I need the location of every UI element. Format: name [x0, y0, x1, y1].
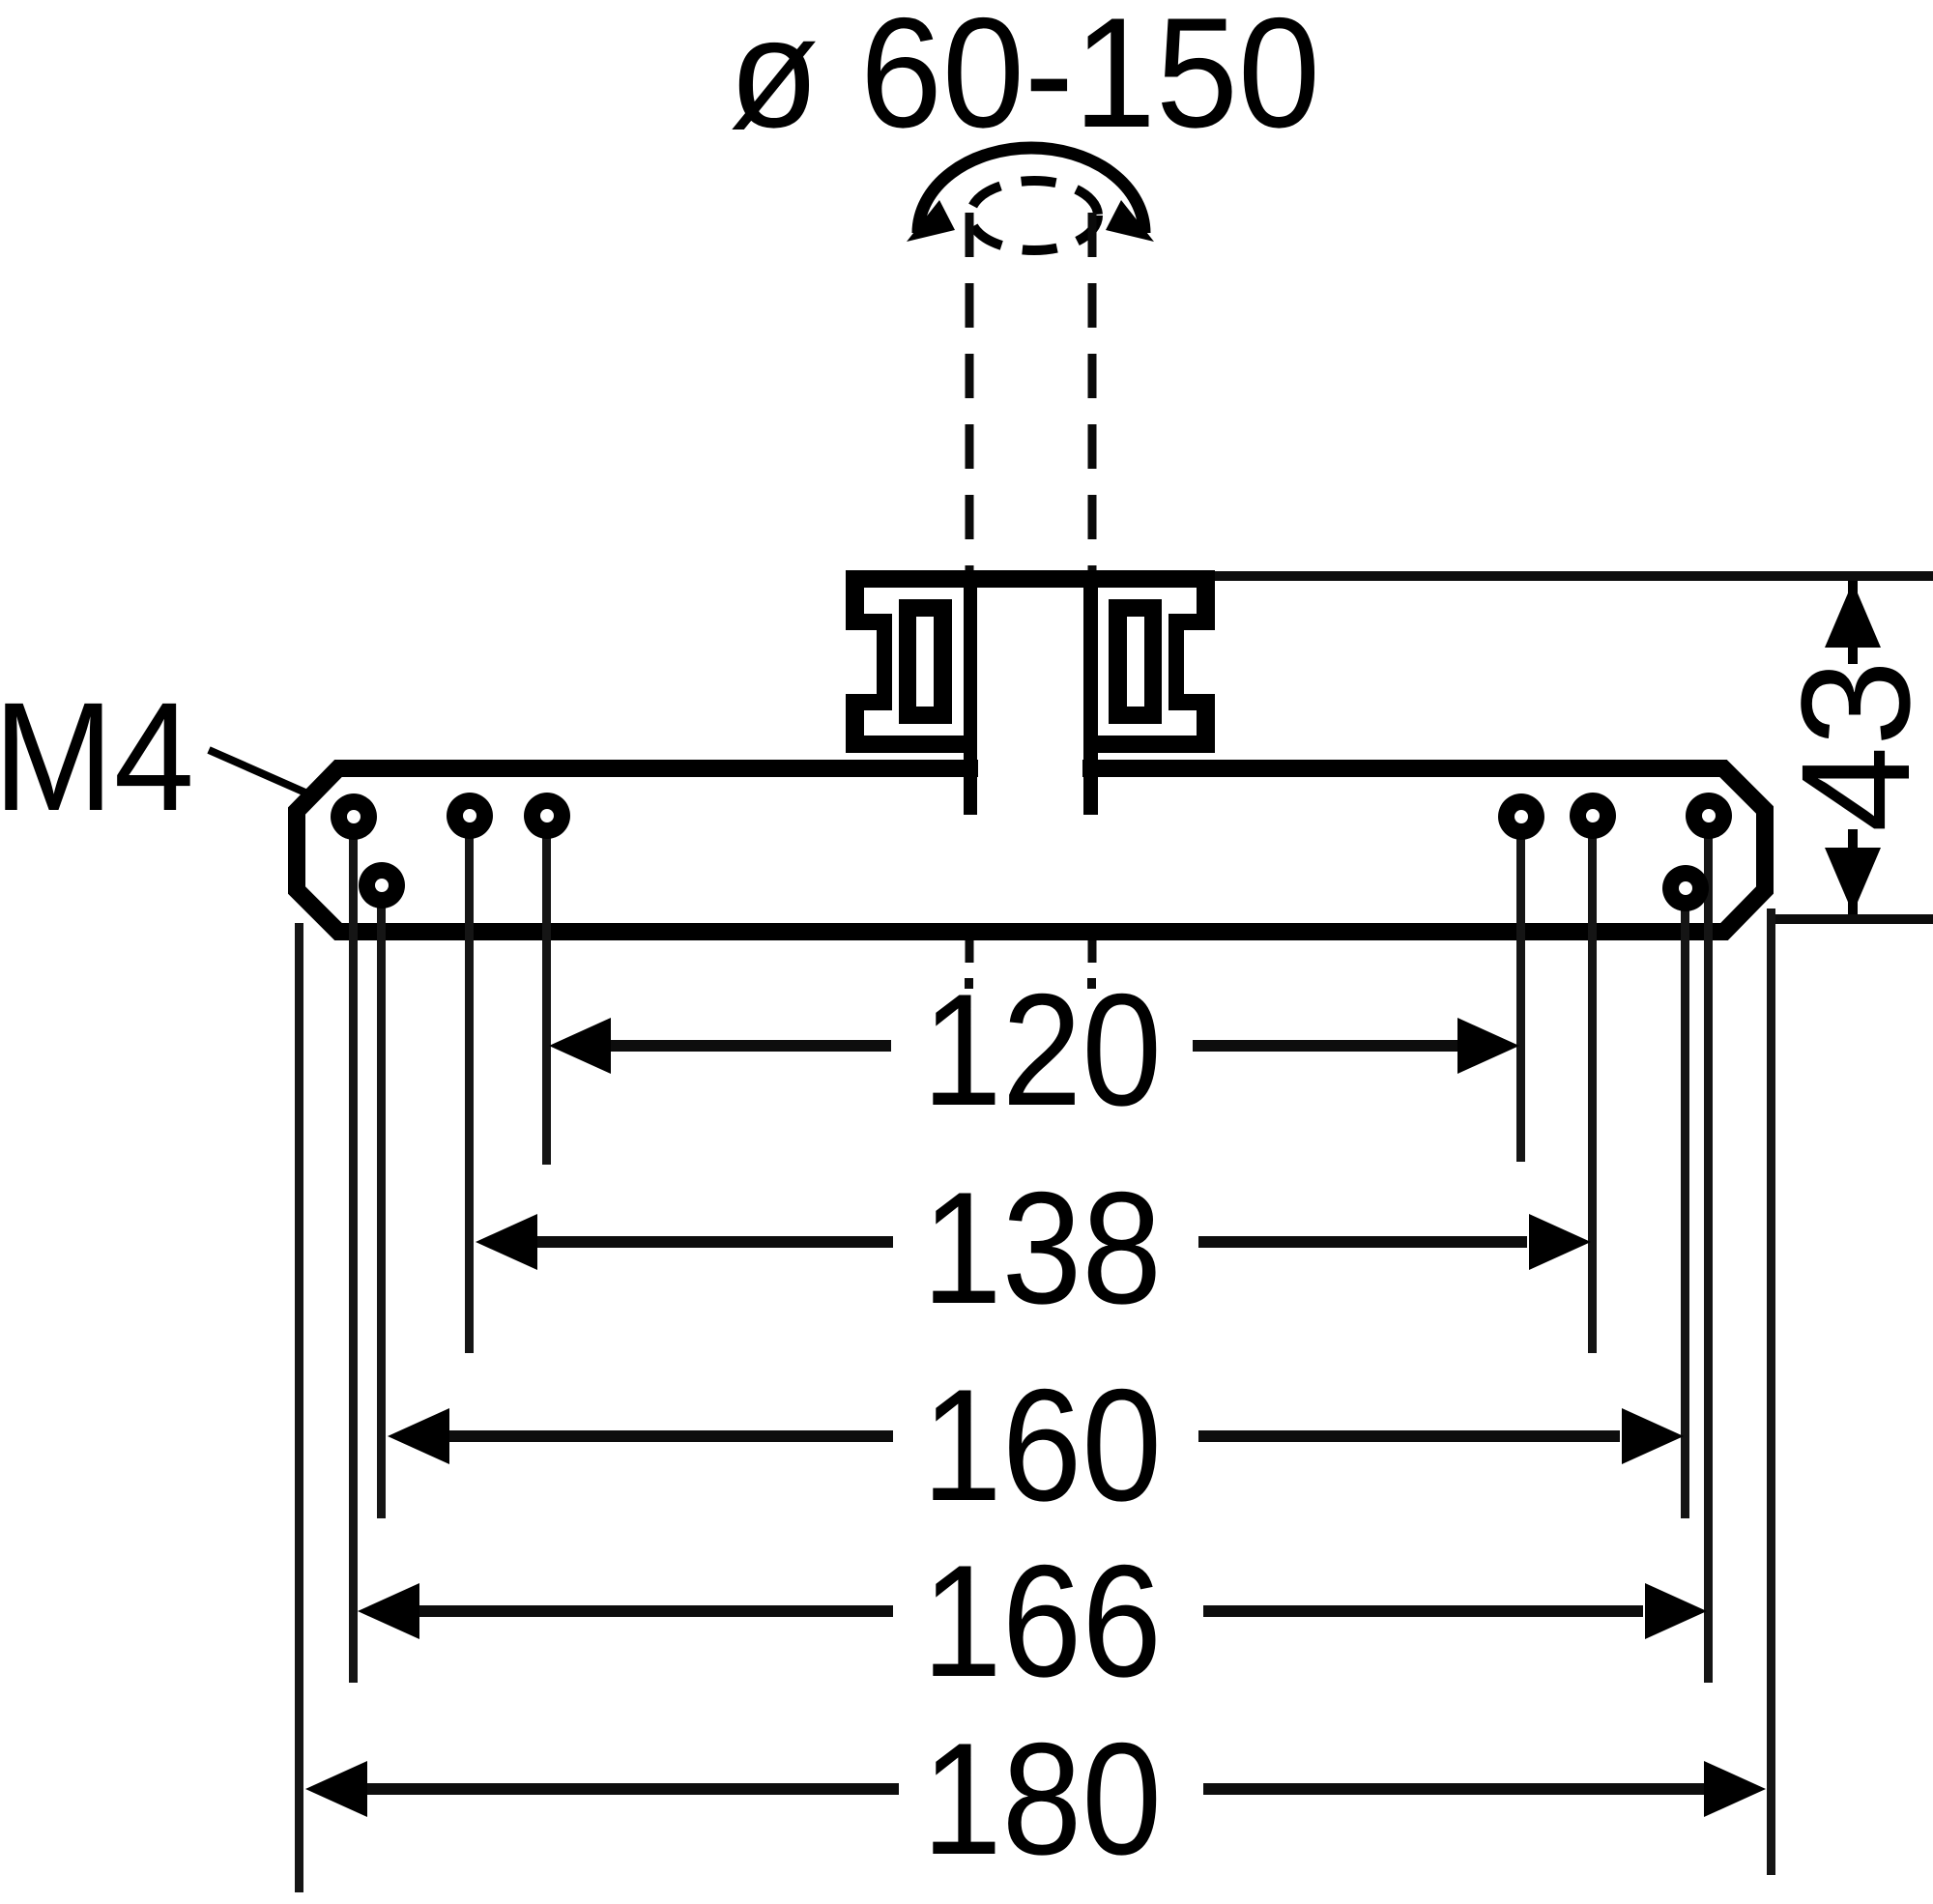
notch structure right [1168, 614, 1197, 630]
dimension line 166 right segment [1203, 1605, 1643, 1617]
hole L3 [524, 793, 570, 839]
hole R2 [1570, 793, 1616, 839]
notch cut left [840, 630, 877, 694]
dimension 160 left arrow [388, 1408, 449, 1464]
hole R3 [1686, 793, 1732, 839]
svg-text:ø 60-150: ø 60-150 [729, 0, 1320, 160]
clamp interior white left [864, 588, 964, 736]
clamp right outer wall [1197, 570, 1215, 753]
slot inner white right [1127, 617, 1144, 707]
dimension line 138 right segment [1198, 1236, 1527, 1248]
hole L3 extension line [542, 816, 551, 1165]
dimension line 160 right segment [1198, 1430, 1620, 1442]
clamp left bottom arm [846, 736, 977, 753]
centerline right end tick [1087, 978, 1096, 989]
dimension 43 upper shaft [1848, 581, 1858, 664]
clamp top edge [846, 570, 1215, 588]
rotation arc [918, 148, 1144, 233]
dimension 166 left arrow [358, 1583, 419, 1639]
dimension line 180 right segment [1203, 1783, 1704, 1795]
M4 leader line [209, 750, 314, 796]
clamp interior white right [1097, 588, 1197, 736]
hole lower-left [359, 862, 405, 909]
svg-text:180: 180 [922, 1710, 1162, 1888]
neck wall right [1083, 570, 1098, 815]
dimension line 120 right segment [1193, 1040, 1461, 1052]
bar right edge extension line [1767, 909, 1775, 1875]
notch structure left [864, 614, 892, 630]
dimension 138 left arrow [476, 1214, 537, 1270]
svg-text:43: 43 [1769, 660, 1933, 832]
svg-text:138: 138 [922, 1159, 1162, 1337]
hole L2 [447, 793, 493, 839]
bar outline (octagon with chamfers) [297, 768, 1765, 932]
dimension 180 right arrow [1704, 1761, 1766, 1817]
dimension 120 right arrow [1457, 1018, 1519, 1074]
svg-text:160: 160 [922, 1356, 1162, 1534]
dimension 160 right arrow [1622, 1408, 1684, 1464]
hole lower-left extension line [377, 885, 386, 1518]
dimension 43 lower shaft [1848, 829, 1858, 914]
centerline left end tick [965, 978, 973, 989]
svg-text:120: 120 [922, 961, 1162, 1139]
dimension 166 right arrow [1645, 1583, 1707, 1639]
centerline left (dash-dot) [966, 213, 974, 965]
clamp right bottom arm [1083, 736, 1215, 753]
hole L2 extension line [465, 816, 474, 1353]
svg-text:166: 166 [922, 1532, 1162, 1710]
slot ring left [899, 599, 952, 724]
hole R1 [1498, 793, 1544, 840]
slot ring right [1109, 599, 1162, 724]
dashed pipe ellipse [970, 181, 1098, 250]
hole R2 extension line [1588, 816, 1597, 1353]
dimension 43 up arrow [1825, 582, 1881, 648]
neck opening in bar top edge [978, 754, 1082, 783]
dimension line 160 left segment [447, 1430, 893, 1442]
bar left edge extension line [295, 923, 303, 1892]
extension line 43 bottom [1769, 914, 1933, 924]
dimension 180 left arrow [305, 1761, 367, 1817]
dimension line 166 left segment [418, 1605, 893, 1617]
hole R3 extension line [1704, 816, 1713, 1683]
dimension 138 right arrow [1529, 1214, 1591, 1270]
hole lower-right extension line [1681, 888, 1689, 1518]
rotation arrow left [907, 200, 955, 242]
hole lower-right [1662, 865, 1709, 911]
hole L1 [331, 793, 377, 840]
dimension line 180 left segment [367, 1783, 899, 1795]
slot inner white left [916, 617, 934, 707]
dimension 43 down arrow [1825, 848, 1881, 913]
clamp left outer wall [846, 570, 864, 753]
hole R1 extension line [1516, 817, 1525, 1162]
hole L1 extension line [349, 817, 358, 1683]
dimension 120 left arrow [549, 1018, 611, 1074]
rotation arrow right [1106, 200, 1154, 242]
neck wall left [964, 570, 977, 815]
notch cut right [1184, 630, 1221, 694]
centerline right (dash-dot) [1088, 213, 1097, 965]
extension line 43 top [1215, 571, 1933, 581]
dimension line 120 left segment [609, 1040, 891, 1052]
svg-text:M4: M4 [0, 670, 194, 843]
dimension line 138 left segment [535, 1236, 893, 1248]
